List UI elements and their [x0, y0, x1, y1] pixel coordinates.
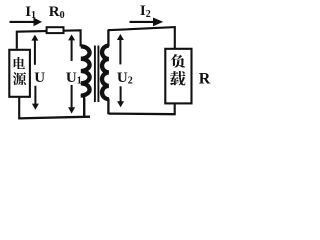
svg-text:R: R	[199, 70, 211, 87]
core line right	[97, 46, 99, 103]
text 源	[13, 72, 26, 85]
text 载	[170, 71, 185, 85]
voltage arrow U (up head)	[31, 35, 38, 65]
secondary bottom wire	[109, 112, 176, 115]
resistor R0	[47, 27, 64, 33]
wire top-left (source top lead, top wire, coil top lead)	[17, 30, 81, 49]
secondary top wire	[108, 27, 175, 48]
primary bottom wire	[18, 117, 90, 119]
primary winding L1	[81, 46, 90, 95]
source box 电源	[9, 50, 30, 97]
voltage arrow U2 (up head)	[117, 34, 124, 64]
voltage arrow U2 (down head)	[117, 86, 124, 107]
core line left	[94, 46, 96, 103]
voltage arrow U1 (up head)	[68, 34, 75, 61]
text 电	[14, 57, 25, 69]
voltage arrow U1 (down head)	[68, 85, 75, 114]
voltage arrow U (down head)	[32, 86, 39, 110]
svg-text:U: U	[34, 70, 45, 86]
load box 负载	[165, 49, 191, 104]
source bottom lead	[18, 97, 20, 119]
current arrow I1	[10, 18, 43, 27]
current arrow I2	[130, 18, 164, 27]
secondary winding L2	[102, 46, 109, 100]
text 负	[171, 54, 186, 67]
load bottom lead	[174, 103, 176, 114]
